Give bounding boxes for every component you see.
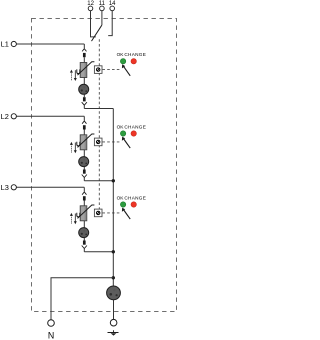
svg-text:CHANGE: CHANGE — [124, 196, 146, 201]
wire varistor to gas discharge tube (module L3) — [83, 221, 85, 228]
connection pin bottom (module L1) — [83, 94, 85, 97]
wire L3 — [17, 186, 85, 188]
wire module L1 output to N bus — [84, 108, 113, 110]
junction L3 output — [112, 250, 115, 253]
gas discharge tube disc (module L3) — [79, 228, 89, 238]
indicator needle (module L1) — [123, 66, 130, 76]
svg-text:L1: L1 — [1, 40, 9, 49]
connection pin top (module L3) — [83, 196, 86, 200]
connection pin top (module L2) — [83, 125, 86, 129]
plug contact bottom (module L2) — [82, 175, 87, 178]
LED green OK (module L2) — [120, 131, 125, 136]
plug contact bottom (module L1) — [82, 102, 87, 105]
LED red CHANGE (module L3) — [131, 202, 136, 207]
plug contact top (module L2) — [82, 121, 86, 124]
indicator needle (module L2) — [123, 139, 130, 149]
dashed device enclosure — [32, 19, 177, 312]
gas discharge tube disc (module L2) — [79, 157, 89, 167]
varistor (module L3) — [80, 206, 87, 221]
wire varistor to gas discharge tube (module L2) — [83, 150, 85, 157]
connection pin top (module L1) — [83, 53, 86, 57]
wire module L2 output to N bus — [84, 180, 113, 182]
junction L2 output — [112, 179, 115, 182]
dashed linkage box to indicator (module L1) — [102, 69, 121, 71]
LED red CHANGE (module L2) — [131, 131, 136, 136]
changeover switch blade — [92, 25, 102, 41]
thermal monitoring box (module L1) — [94, 66, 102, 74]
wire L3 branch down — [83, 187, 85, 191]
wire varistor to gas discharge tube (module L1) — [83, 78, 85, 85]
varistor (module L2) — [80, 135, 87, 150]
svg-text:OK: OK — [117, 196, 125, 201]
earth symbol — [113, 330, 115, 332]
LED green OK (module L3) — [120, 202, 125, 207]
wire L1 — [17, 43, 85, 45]
svg-text:OK: OK — [117, 52, 125, 57]
terminal N — [48, 320, 55, 327]
plug contact top (module L3) — [82, 192, 86, 195]
voltage-switching symbol U (module L1) — [70, 72, 72, 80]
thermal monitoring box (module L2) — [94, 138, 102, 146]
varistor (module L1) — [80, 63, 87, 78]
mechanical linkage dashed line — [98, 39, 100, 216]
gas discharge tube disc (module L1) — [79, 84, 89, 94]
wire N — [51, 278, 113, 320]
wire L2 branch down — [83, 116, 85, 120]
voltage-switching symbol U (module L2) — [70, 144, 72, 152]
svg-text:CHANGE: CHANGE — [124, 125, 146, 130]
connection pin bottom (module L2) — [83, 167, 85, 170]
plug contact top (module L1) — [82, 49, 86, 52]
plug contact bottom (module L3) — [82, 246, 87, 249]
thermal monitoring box (module L3) — [94, 209, 102, 217]
connection pin bottom (module L3) — [83, 238, 85, 241]
wire module L3 output to N bus — [84, 251, 113, 253]
LED green OK (module L1) — [120, 59, 125, 64]
dashed linkage box to indicator (module L2) — [102, 141, 121, 143]
N bus wire — [112, 109, 114, 286]
wire PE — [113, 300, 115, 320]
wire L1 branch down — [83, 44, 85, 48]
svg-text:OK: OK — [117, 125, 125, 130]
indicator needle (module L3) — [123, 210, 130, 220]
svg-text:CHANGE: CHANGE — [124, 52, 146, 57]
svg-text:L2: L2 — [1, 112, 9, 121]
LED red CHANGE (module L1) — [131, 59, 136, 64]
junction N branch — [112, 276, 115, 279]
voltage-switching symbol U (module L3) — [70, 215, 72, 223]
dashed linkage box to indicator (module L3) — [102, 212, 121, 214]
svg-text:N: N — [48, 331, 54, 340]
wire L2 — [17, 115, 85, 117]
terminal PE — [110, 319, 117, 326]
N-PE spark gap disc — [107, 286, 121, 300]
svg-text:L3: L3 — [1, 183, 9, 192]
